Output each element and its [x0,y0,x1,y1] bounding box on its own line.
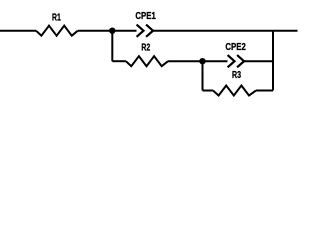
svg-text:R2: R2 [141,43,150,54]
CPE element CPE1 [137,25,153,37]
wire: middle branch left segment [112,60,126,62]
node A junction dot [109,28,115,34]
wire: bottom branch left segment [203,90,214,92]
wire: top-left lead into R1 [0,30,36,32]
wire: node A down to middle branch [111,31,113,62]
svg-text:R3: R3 [232,70,241,81]
svg-text:CPE2: CPE2 [225,42,246,53]
svg-text:R1: R1 [52,13,61,24]
CPE element CPE2 [228,55,244,67]
resistor R2 [126,56,168,66]
wire: node B to CPE2 [203,60,228,62]
wire: right vertical joining top, middle and bottom branches [272,31,274,91]
resistor R1 [36,26,78,36]
wire: R2 to node B [168,60,203,62]
wire: R1 to node A [78,30,113,32]
svg-text:CPE1: CPE1 [135,11,156,22]
wire: node A to CPE1 [112,30,136,32]
wire: R3 to right vertical (bottom) [256,90,273,92]
resistor R3 [213,86,256,96]
wire: node B down to bottom branch [202,61,204,90]
node B junction dot [199,58,205,64]
wire: CPE2 to right vertical [244,60,273,62]
wire: CPE1 to right lead (top) [153,30,298,32]
